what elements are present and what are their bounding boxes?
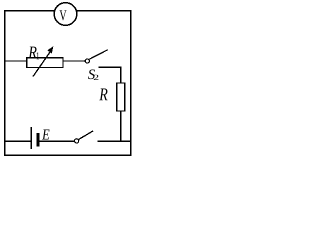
switch S2 blade <box>89 50 108 60</box>
wire: after bottom switch to right wire <box>98 140 131 142</box>
resistor R box <box>117 83 125 111</box>
rheostat arrow <box>33 50 51 76</box>
switch S1 blade <box>78 131 93 140</box>
label R <box>99 89 107 101</box>
wire: after S2 to right branch corner <box>98 67 121 83</box>
wire: middle branch between R1 and S2 <box>63 60 85 62</box>
label S2 <box>88 69 95 79</box>
wire: below R to bottom wire <box>120 111 122 141</box>
wire: bottom branch left segment <box>5 140 31 142</box>
voltmeter V1 circle <box>54 3 77 26</box>
wire: battery to bottom switch <box>39 140 74 142</box>
label R1 <box>28 47 36 59</box>
switch S1 pivot <box>75 139 79 143</box>
label E <box>42 130 50 140</box>
wire: middle branch left segment <box>5 60 27 62</box>
switch S2 pivot <box>85 59 89 63</box>
battery E short thick plate <box>36 133 39 147</box>
battery E long plate <box>30 127 32 149</box>
resistor R1 (rheostat box) <box>27 58 63 68</box>
voltmeter label V <box>60 10 67 20</box>
wire: outer loop (top wire, left wire, right wire, bottom border) <box>5 11 131 155</box>
